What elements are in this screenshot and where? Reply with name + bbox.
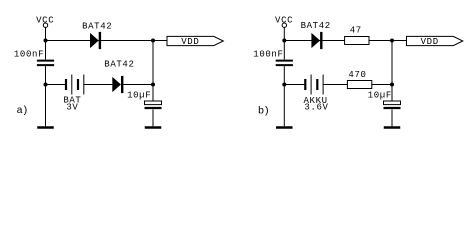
capacitor C1 100nF (a) <box>37 60 54 62</box>
wire 100nF down through mid node to ground (a) <box>45 66 47 126</box>
wire top-right node to VDD flag (a) <box>153 40 167 42</box>
svg-text:3.6V: 3.6V <box>304 103 328 113</box>
wire 10uF to ground (a) <box>152 110 154 127</box>
diode D2 BAT42 (a) <box>112 76 123 93</box>
svg-text:VDD: VDD <box>421 37 439 47</box>
wire 10uF to ground (b) <box>391 110 393 127</box>
wire VCC to top node (a) <box>45 27 47 40</box>
svg-text:47: 47 <box>350 26 362 36</box>
ground symbol left (a) <box>37 126 54 129</box>
svg-text:3V: 3V <box>66 102 78 112</box>
node junction mid-right (a) <box>151 83 155 87</box>
wire right vertical from top node to 10uF (a) <box>152 41 154 102</box>
wire top node down to 100nF (b) <box>283 41 285 60</box>
wire top rail (a) <box>46 40 168 42</box>
schematic: two battery-backup supply circuits a) and b) <box>0 0 470 143</box>
ground symbol right (b) <box>384 126 401 129</box>
node junction top-right (a) <box>151 39 155 43</box>
wire right vertical from top node to 10uF (b) <box>391 41 393 102</box>
svg-text:BAT42: BAT42 <box>301 21 331 31</box>
wire diode D2 to mid-right node (a) <box>123 84 153 86</box>
wire battery to diode D2 (a) <box>84 84 113 86</box>
svg-text:470: 470 <box>348 70 366 80</box>
svg-text:VCC: VCC <box>275 15 293 25</box>
svg-text:10µF: 10µF <box>127 90 151 100</box>
battery AKKU 3.6V (b) <box>305 75 323 95</box>
VDD output flag (b) <box>407 36 463 45</box>
svg-text:BAT42: BAT42 <box>82 21 112 31</box>
wire 100nF down through mid node to ground (b) <box>283 66 285 126</box>
node junction top-left (a) <box>44 39 48 43</box>
node junction mid-left (a) <box>44 83 48 87</box>
wire mid rail to battery (a) <box>46 84 66 86</box>
diode D3 BAT42 (b) <box>311 32 322 49</box>
svg-text:a): a) <box>16 105 27 117</box>
capacitor C3 100nF (b) <box>276 60 293 62</box>
resistor R2 470 (b) <box>347 81 371 89</box>
resistor R1 47 (b) <box>345 37 369 45</box>
svg-text:BAT42: BAT42 <box>104 59 134 69</box>
node junction top-right (b) <box>390 39 394 43</box>
wire top node down to 100nF (a) <box>45 41 47 60</box>
wire battery to resistor R2 (b) <box>323 84 347 86</box>
capacitor C4 10uF polarized (b) <box>384 101 401 105</box>
battery BAT 3V (a) <box>66 75 84 95</box>
wire resistor R2 to mid-right node (b) <box>372 84 392 86</box>
svg-text:VCC: VCC <box>36 15 54 25</box>
svg-text:100nF: 100nF <box>253 50 283 60</box>
circuit a: VCC supply terminal <box>43 23 47 27</box>
wire mid rail to battery (b) <box>284 84 304 86</box>
node junction top-left (b) <box>282 39 286 43</box>
node junction mid-left (b) <box>282 83 286 87</box>
VDD output flag (a) <box>167 36 223 45</box>
diode D1 BAT42 (a) <box>90 32 101 49</box>
ground symbol left (b) <box>276 126 293 129</box>
wire top rail (b) <box>284 40 406 42</box>
svg-text:10µF: 10µF <box>368 91 392 101</box>
svg-text:100nF: 100nF <box>14 49 44 59</box>
svg-text:VDD: VDD <box>181 37 199 47</box>
ground symbol right (a) <box>145 126 162 129</box>
svg-text:b): b) <box>258 105 269 117</box>
wire VCC to top node (b) <box>283 27 285 40</box>
node junction mid-right (b) <box>390 83 394 87</box>
circuit b: VCC supply terminal <box>282 23 286 27</box>
capacitor C2 10uF polarized (a) <box>145 101 162 105</box>
